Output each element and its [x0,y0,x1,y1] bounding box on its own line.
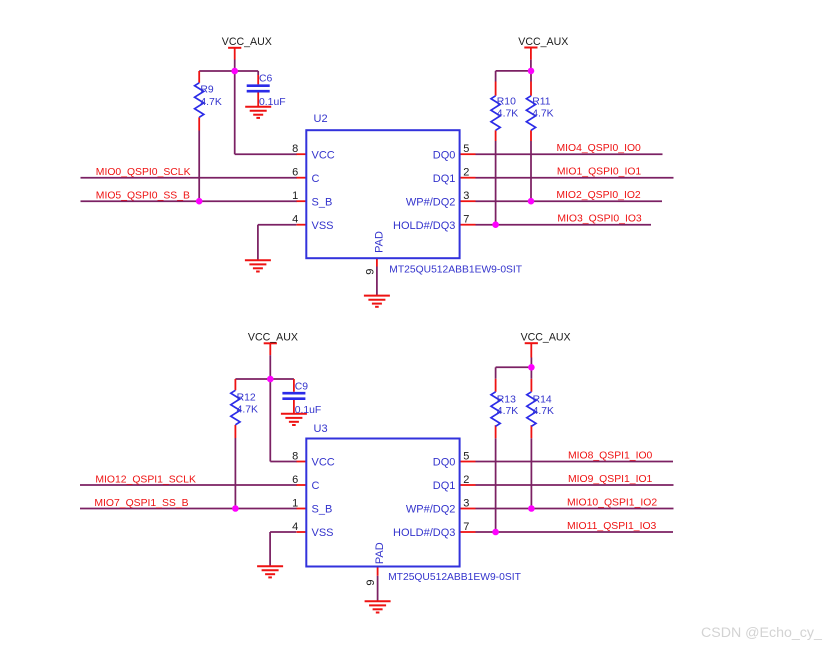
svg-text:MIO11_QSPI1_IO3: MIO11_QSPI1_IO3 [567,521,657,532]
svg-text:9: 9 [365,579,377,585]
svg-text:WP#/DQ2: WP#/DQ2 [406,504,456,516]
svg-text:DQ1: DQ1 [433,173,456,185]
svg-text:R11: R11 [532,97,551,108]
svg-text:3: 3 [463,497,469,509]
svg-text:7: 7 [463,214,469,226]
svg-text:VCC: VCC [312,457,335,469]
svg-text:DQ0: DQ0 [433,149,456,161]
svg-text:HOLD#/DQ3: HOLD#/DQ3 [393,527,455,539]
svg-text:R12: R12 [237,392,256,403]
svg-text:WP#/DQ2: WP#/DQ2 [406,196,456,208]
svg-text:0.1uF: 0.1uF [295,405,322,416]
svg-text:S_B: S_B [312,196,333,208]
svg-text:DQ0: DQ0 [433,457,456,469]
svg-text:4.7K: 4.7K [532,109,553,120]
svg-text:MIO0_QSPI0_SCLK: MIO0_QSPI0_SCLK [96,167,191,178]
svg-text:0.1uF: 0.1uF [259,97,286,108]
svg-text:C: C [312,173,320,185]
svg-text:5: 5 [463,450,469,462]
svg-text:6: 6 [292,167,298,179]
svg-text:6: 6 [292,474,298,486]
svg-text:MIO5_QSPI0_SS_B: MIO5_QSPI0_SS_B [96,191,190,202]
svg-text:C: C [312,480,320,492]
svg-text:U2: U2 [314,113,328,125]
svg-text:4.7K: 4.7K [237,404,258,415]
svg-text:R13: R13 [497,395,516,406]
svg-text:VCC: VCC [312,149,335,161]
svg-text:MIO4_QSPI0_IO0: MIO4_QSPI0_IO0 [557,143,642,154]
svg-text:R10: R10 [497,97,516,108]
svg-text:MIO10_QSPI1_IO2: MIO10_QSPI1_IO2 [567,497,657,508]
svg-text:CSDN @Echo_cy_: CSDN @Echo_cy_ [701,625,823,641]
svg-text:MIO1_QSPI0_IO1: MIO1_QSPI0_IO1 [557,167,642,178]
svg-text:VCC_AUX: VCC_AUX [518,36,568,48]
svg-text:VSS: VSS [312,527,334,539]
svg-text:U3: U3 [314,423,328,435]
svg-text:9: 9 [364,269,376,275]
svg-text:4.7K: 4.7K [533,406,554,417]
svg-text:VCC_AUX: VCC_AUX [222,36,272,48]
svg-text:C6: C6 [259,73,273,84]
svg-text:MIO7_QSPI1_SS_B: MIO7_QSPI1_SS_B [94,498,188,509]
svg-text:1: 1 [292,190,298,202]
svg-text:4.7K: 4.7K [497,109,518,120]
svg-text:MT25QU512ABB1EW9-0SIT: MT25QU512ABB1EW9-0SIT [388,572,521,583]
svg-text:3: 3 [463,190,469,202]
svg-text:VCC_AUX: VCC_AUX [248,332,298,344]
svg-text:4: 4 [292,521,298,533]
svg-text:MIO2_QSPI0_IO2: MIO2_QSPI0_IO2 [556,190,641,201]
svg-text:MIO8_QSPI1_IO0: MIO8_QSPI1_IO0 [568,450,653,461]
svg-text:VSS: VSS [312,220,334,232]
svg-text:MIO3_QSPI0_IO3: MIO3_QSPI0_IO3 [557,214,642,225]
svg-text:PAD: PAD [374,542,386,564]
svg-text:R14: R14 [533,395,552,406]
svg-text:2: 2 [463,167,469,179]
svg-text:DQ1: DQ1 [433,480,456,492]
svg-text:MT25QU512ABB1EW9-0SIT: MT25QU512ABB1EW9-0SIT [389,264,522,275]
svg-text:7: 7 [463,521,469,533]
svg-text:S_B: S_B [312,504,333,516]
svg-text:2: 2 [463,474,469,486]
svg-text:MIO12_QSPI1_SCLK: MIO12_QSPI1_SCLK [95,474,196,485]
svg-text:PAD: PAD [374,231,386,253]
svg-text:R9: R9 [200,85,214,96]
svg-text:1: 1 [292,497,298,509]
svg-text:HOLD#/DQ3: HOLD#/DQ3 [393,220,455,232]
svg-text:4: 4 [292,214,298,226]
svg-text:C9: C9 [295,382,309,393]
svg-text:4.7K: 4.7K [200,97,221,108]
svg-text:8: 8 [292,450,298,462]
svg-text:8: 8 [292,143,298,155]
svg-text:VCC_AUX: VCC_AUX [521,332,571,344]
svg-text:4.7K: 4.7K [497,406,518,417]
svg-text:MIO9_QSPI1_IO1: MIO9_QSPI1_IO1 [568,474,653,485]
svg-text:5: 5 [463,143,469,155]
